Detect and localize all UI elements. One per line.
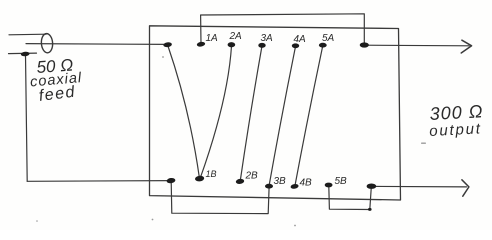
terminal dot bottom left	[166, 177, 175, 183]
svg-text:3A: 3A	[261, 33, 274, 44]
coaxial cable end ellipse	[41, 33, 54, 53]
arrowhead bottom output	[462, 180, 469, 196]
speck	[294, 225, 296, 227]
speck	[421, 143, 426, 144]
terminal dot 2A	[228, 42, 236, 47]
wire 3B to 4A	[269, 48, 295, 186]
terminal dot 1A	[196, 41, 205, 47]
terminal dot 2B	[235, 178, 244, 184]
wire 4B to 5A	[295, 47, 323, 186]
terminal dot 3A	[258, 43, 265, 48]
wire left terminal to 1B	[168, 46, 200, 178]
terminal dot 5A	[319, 43, 327, 48]
wire bottom output	[372, 185, 467, 188]
wire coax centre conductor to left top terminal	[26, 43, 168, 46]
transformer box outline	[150, 26, 401, 200]
terminal dot right bottom	[367, 184, 377, 189]
arrowhead top output	[461, 40, 471, 53]
junction blob jumper corner	[368, 208, 372, 211]
svg-text:output: output	[429, 120, 482, 140]
wire coax shield down	[26, 55, 28, 181]
coaxial cable top line	[9, 33, 46, 36]
svg-text:feed: feed	[38, 84, 77, 105]
speck	[36, 220, 38, 222]
svg-text:5A: 5A	[322, 33, 335, 44]
svg-text:1A: 1A	[206, 33, 219, 44]
svg-text:2B: 2B	[245, 171, 259, 182]
terminal dot 3B	[265, 184, 273, 189]
terminal dot right top	[360, 42, 369, 47]
svg-text:4A: 4A	[294, 34, 307, 45]
wire shield run to bottom-left terminal	[27, 180, 171, 183]
wire 2A to 1B	[200, 46, 231, 178]
wire top loop 1A to right terminal	[201, 14, 365, 45]
wire jumper bottom-left terminal to 3B	[171, 182, 269, 214]
svg-text:3B: 3B	[274, 176, 287, 187]
svg-text:1B: 1B	[206, 169, 217, 179]
coaxial cable bottom line	[9, 52, 37, 55]
speck	[162, 56, 164, 58]
terminal dot 5B	[325, 183, 333, 188]
terminal dot 1B	[195, 175, 205, 182]
svg-text:2A: 2A	[229, 31, 243, 42]
wire jumper 5B to right bottom terminal	[329, 186, 372, 210]
svg-text:5B: 5B	[335, 176, 348, 187]
terminal dot left top	[163, 42, 172, 48]
wire top output	[365, 44, 470, 47]
terminal dot 4B	[290, 183, 299, 189]
coax shield tap dot	[21, 51, 30, 56]
speck	[152, 219, 154, 221]
terminal dot 4A	[292, 43, 299, 48]
svg-text:4B: 4B	[300, 178, 313, 189]
wire 2B to 3A	[240, 47, 261, 181]
